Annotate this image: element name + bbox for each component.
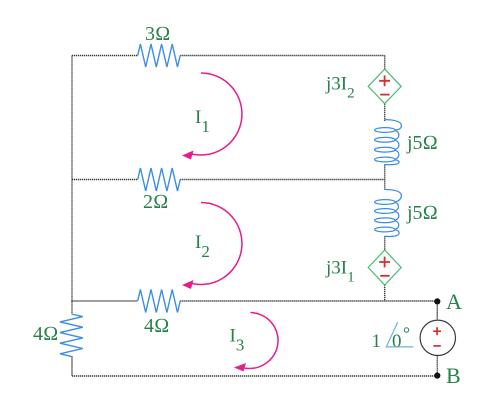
wire: left vertical upper segment <box>71 56 73 315</box>
resistor 2ohm <box>138 168 181 191</box>
mesh arrow I2 <box>188 203 242 285</box>
angle symbol <box>386 322 413 347</box>
resistor 4ohm horizontal <box>138 290 181 313</box>
dependent source j3I1 diamond <box>368 250 401 285</box>
degree mark <box>404 328 408 332</box>
dependent source j3I2 diamond <box>368 69 401 104</box>
wire: middle1 left of 2ohm <box>72 179 138 181</box>
inductor j5ohm top <box>375 120 402 165</box>
minus of j3I1 <box>380 275 389 277</box>
plus of j3I2 <box>379 75 390 86</box>
voltage source 1 angle 0 <box>420 320 455 355</box>
wire: coil2 to diamond2 <box>384 236 386 250</box>
plus of source <box>433 327 441 335</box>
minus of j3I2 <box>380 94 389 96</box>
node B <box>434 373 440 379</box>
svg-text:1: 1 <box>372 331 382 352</box>
inductor j5ohm bottom <box>375 189 402 236</box>
svg-text:3Ω: 3Ω <box>145 23 170 45</box>
svg-text:2Ω: 2Ω <box>143 191 168 213</box>
wire: source to node B <box>436 356 438 376</box>
svg-text:A: A <box>446 289 462 314</box>
svg-text:4Ω: 4Ω <box>33 323 58 345</box>
wire: top right of 3ohm <box>180 55 385 57</box>
wire: right vertical top to diamond1 <box>384 56 386 70</box>
wire: left vertical lower segment <box>71 356 73 376</box>
wire: middle2 right of 4ohm to node A <box>180 300 437 302</box>
wire: top left of 3ohm <box>72 55 138 57</box>
svg-text:j5Ω: j5Ω <box>406 132 438 154</box>
resistor 3ohm <box>138 44 181 67</box>
minus of source <box>433 345 440 347</box>
resistor 4ohm vertical <box>60 314 83 356</box>
svg-text:0: 0 <box>392 331 402 352</box>
wire: diamond1 to coil1 <box>384 104 386 121</box>
wire: middle2 left of 4ohm <box>71 300 137 302</box>
plus of j3I1 <box>379 257 390 268</box>
wire: bottom <box>72 375 437 377</box>
node A <box>434 298 440 304</box>
svg-text:j5Ω: j5Ω <box>406 202 438 224</box>
svg-text:4Ω: 4Ω <box>144 315 169 337</box>
mesh arrow I1 <box>188 73 242 155</box>
mesh arrow I3 <box>240 313 278 369</box>
wire: diamond2 to middle2 <box>384 285 386 301</box>
wire: node A down to source <box>436 301 438 320</box>
wire: middle1 right of 2ohm <box>180 179 385 181</box>
wire: coil1 to middle1 to coil2 <box>384 165 386 190</box>
svg-text:B: B <box>446 363 461 388</box>
